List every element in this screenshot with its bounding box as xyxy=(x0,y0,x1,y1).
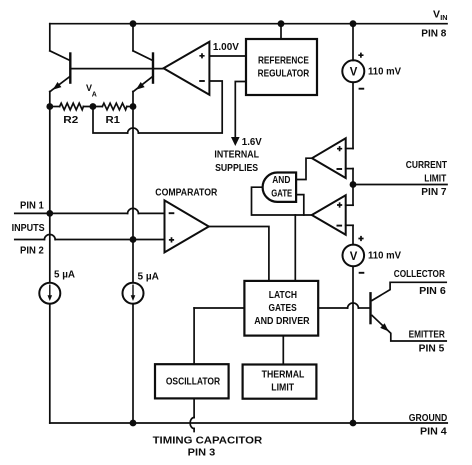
svg-text:LATCH: LATCH xyxy=(269,290,297,301)
svg-text:REGULATOR: REGULATOR xyxy=(258,69,310,80)
svg-text:1.00V: 1.00V xyxy=(213,42,239,53)
svg-text:PIN 2: PIN 2 xyxy=(20,245,44,256)
svg-text:A: A xyxy=(92,91,97,98)
svg-text:THERMAL: THERMAL xyxy=(262,370,305,381)
svg-text:TIMING CAPACITOR: TIMING CAPACITOR xyxy=(153,436,263,447)
svg-text:1.6V: 1.6V xyxy=(242,137,262,148)
svg-text:AND: AND xyxy=(272,175,290,186)
svg-text:5 µA: 5 µA xyxy=(138,271,159,282)
svg-text:PIN 8: PIN 8 xyxy=(421,28,447,39)
svg-text:110 mV: 110 mV xyxy=(368,251,401,262)
svg-text:V: V xyxy=(350,65,358,79)
svg-text:INTERNAL: INTERNAL xyxy=(214,149,259,160)
svg-text:PIN 7: PIN 7 xyxy=(421,187,447,198)
svg-text:GATES: GATES xyxy=(269,303,297,314)
svg-text:IN: IN xyxy=(440,13,447,22)
svg-text:R2: R2 xyxy=(63,115,78,126)
svg-text:110 mV: 110 mV xyxy=(368,67,401,78)
svg-text:PIN 1: PIN 1 xyxy=(20,200,44,211)
svg-text:INPUTS: INPUTS xyxy=(12,223,45,234)
svg-text:5 µA: 5 µA xyxy=(54,270,75,281)
svg-text:PIN 6: PIN 6 xyxy=(419,286,446,297)
svg-text:COLLECTOR: COLLECTOR xyxy=(394,269,446,280)
svg-text:GROUND: GROUND xyxy=(409,413,448,424)
svg-text:PIN 4: PIN 4 xyxy=(420,427,447,438)
svg-text:PIN 5: PIN 5 xyxy=(419,343,445,354)
svg-text:CURRENT: CURRENT xyxy=(406,160,447,171)
svg-text:OSCILLATOR: OSCILLATOR xyxy=(166,377,221,388)
svg-text:V: V xyxy=(350,249,358,263)
svg-text:PIN 3: PIN 3 xyxy=(188,447,216,458)
svg-text:COMPARATOR: COMPARATOR xyxy=(155,187,218,198)
svg-text:AND DRIVER: AND DRIVER xyxy=(254,316,310,327)
svg-text:EMITTER: EMITTER xyxy=(409,330,446,341)
svg-text:GATE: GATE xyxy=(271,188,292,199)
svg-text:SUPPLIES: SUPPLIES xyxy=(215,163,258,174)
svg-text:LIMIT: LIMIT xyxy=(271,382,294,393)
svg-text:V: V xyxy=(433,9,440,21)
svg-text:R1: R1 xyxy=(106,115,121,126)
svg-text:LIMIT: LIMIT xyxy=(424,174,446,185)
svg-text:REFERENCE: REFERENCE xyxy=(258,56,309,67)
